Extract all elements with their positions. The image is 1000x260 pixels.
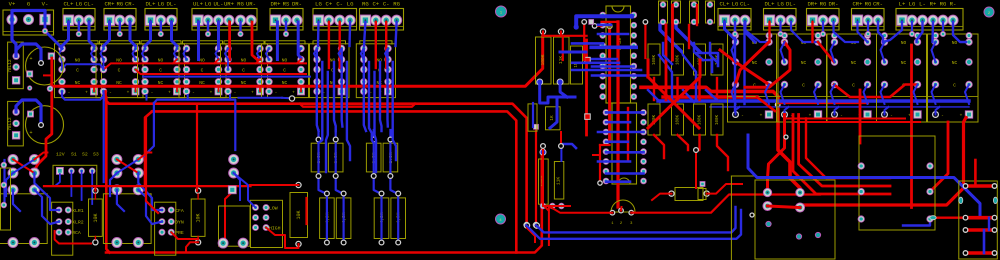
svg-text:RG: RG — [865, 0, 872, 7]
blue vert 103 — [103, 95, 105, 182]
wire K3 coil hooks — [142, 49, 145, 60]
transistor Q1 — [611, 200, 635, 212]
relay K9 — [728, 34, 779, 122]
svg-text:-: - — [275, 90, 278, 95]
regulator IC3 78L — [8, 101, 24, 145]
svg-text:L-: L- — [919, 0, 926, 7]
svg-text:C: C — [159, 68, 162, 74]
blue bus 232 — [536, 207, 736, 232]
red bus 111 — [145, 111, 152, 186]
relay K11 — [827, 34, 877, 122]
svg-text:-: - — [68, 90, 71, 95]
wire V+ top loop — [12, 11, 45, 20]
svg-text:PRE: PRE — [175, 230, 184, 236]
marker small a — [766, 221, 771, 226]
wire K7 coil hooks — [314, 49, 317, 60]
svg-text:100K: 100K — [653, 54, 657, 65]
resistor R7 11K — [554, 37, 570, 84]
wire ch2 blues — [110, 173, 117, 196]
wire red vert 609 — [608, 26, 611, 140]
resistor R8 1K — [546, 107, 561, 130]
wire red vert 618 main — [616, 22, 619, 207]
pad hook1 — [39, 61, 44, 66]
marker 1 — [496, 6, 507, 17]
svg-text:C: C — [118, 68, 121, 74]
svg-text:DR+: DR+ — [807, 0, 818, 7]
terminal block J4 DL — [145, 9, 177, 31]
svg-text:C+: C+ — [326, 0, 333, 7]
svg-text:+: + — [251, 90, 254, 95]
blue bus below C — [143, 76, 310, 78]
svg-text:NC: NC — [952, 60, 958, 66]
module box B — [859, 136, 935, 230]
wire red vert 628 — [627, 108, 629, 160]
svg-text:CFA: CFA — [175, 208, 184, 214]
marker 2 — [984, 7, 994, 17]
svg-text:RG: RG — [940, 0, 947, 7]
svg-text:V+: V+ — [9, 0, 16, 7]
svg-text:LG: LG — [205, 0, 212, 7]
svg-text:C+: C+ — [372, 0, 379, 7]
wire cn3 — [234, 173, 240, 200]
svg-text:UL+: UL+ — [193, 0, 204, 7]
wire V- feed — [45, 22, 62, 49]
terminal block J10 DL out — [764, 9, 797, 31]
svg-text:LG: LG — [315, 0, 322, 7]
wire reg2 hook — [16, 100, 41, 124]
svg-text:R+: R+ — [930, 0, 937, 7]
svg-text:LG: LG — [347, 0, 354, 7]
resistor R1 10K — [89, 199, 103, 236]
wire red band 97 — [663, 95, 757, 98]
terminal block J13 L/R out — [896, 9, 963, 31]
component left small — [528, 104, 537, 131]
resistor R6 100K — [536, 37, 552, 84]
op-amp U1 LM339 — [606, 6, 631, 103]
svg-text:+: + — [29, 130, 32, 136]
wire blue boxB L — [903, 219, 930, 226]
red sq stubs — [93, 86, 95, 91]
svg-text:RCA: RCA — [72, 230, 81, 236]
resistor R5 10K — [290, 193, 308, 238]
wire Q1 feeds — [620, 207, 623, 211]
svg-text:LG: LG — [157, 0, 164, 7]
svg-text:-: - — [192, 90, 195, 95]
svg-text:S3: S3 — [93, 152, 99, 158]
wire box C blues — [974, 160, 977, 186]
svg-text:LG: LG — [909, 0, 916, 7]
svg-text:C: C — [852, 83, 855, 89]
wire J4 feeds — [145, 22, 151, 46]
svg-text:C: C — [953, 83, 956, 89]
svg-text:C: C — [201, 68, 204, 74]
relay K10 — [777, 34, 828, 122]
wire blue rungs U1 — [592, 58, 617, 61]
wire bank red verts — [665, 25, 668, 100]
svg-text:100K: 100K — [540, 54, 546, 65]
op-amp U2 — [612, 103, 637, 184]
wire ch2 reds — [146, 118, 158, 214]
wire red left IC2 — [599, 145, 601, 182]
wire bank blues2 — [663, 43, 672, 64]
svg-text:12V: 12V — [56, 152, 65, 158]
blue vert 154 — [141, 103, 154, 159]
pad tiny red — [784, 135, 788, 139]
terminal block J12 CR out — [852, 9, 885, 31]
terminal block J1 V+/G/V- — [3, 10, 54, 35]
wire big blue top U1 — [576, 16, 631, 27]
regulator IC2 78L — [8, 42, 24, 89]
wire red mesh top — [543, 35, 587, 37]
wire ch1 rca red — [55, 231, 91, 244]
capacitor C1 — [26, 47, 64, 85]
red vert 536 — [535, 128, 537, 224]
svg-text:CL-: CL- — [84, 0, 94, 7]
resistors R 1.0K x4 — [311, 143, 326, 172]
wire J2 feeds — [62, 22, 69, 46]
channel 2 pads — [103, 194, 151, 244]
connector CN1 — [52, 202, 73, 255]
svg-text:C: C — [76, 68, 79, 74]
svg-text:RG: RG — [116, 0, 123, 7]
marker 4 — [496, 214, 506, 224]
svg-text:DR-: DR- — [292, 0, 302, 7]
resistor bank row1 — [648, 44, 660, 75]
wire blue U1 — [540, 82, 575, 103]
wire D1 red — [652, 194, 672, 200]
wire blue band 104 — [658, 99, 969, 102]
svg-text:RG: RG — [820, 0, 827, 7]
svg-text:100K: 100K — [677, 114, 681, 125]
connector CN2 — [155, 202, 176, 255]
svg-text:1K: 1K — [550, 115, 555, 121]
connector CN3 LOW/HIGH — [251, 200, 283, 247]
terminal block J6 DR — [270, 9, 303, 31]
svg-text:LOW: LOW — [269, 206, 278, 212]
svg-text:+: + — [29, 56, 32, 62]
blue bus 239 — [526, 210, 741, 239]
red bottom bus — [106, 150, 542, 253]
svg-text:C: C — [802, 83, 805, 89]
relay K8 — [360, 41, 392, 44]
wire box A reds — [768, 206, 801, 208]
svg-text:+: + — [85, 90, 88, 95]
ring pad bus — [289, 96, 294, 101]
blue bridge R1-R2 — [62, 64, 104, 69]
svg-text:DL-: DL- — [786, 0, 796, 7]
svg-text:C-: C- — [336, 0, 343, 7]
svg-text:NC: NC — [851, 60, 857, 66]
wire K8 coil hooks — [361, 49, 364, 60]
wire mid reds left — [543, 145, 548, 210]
wire J10 feeds — [768, 22, 770, 42]
svg-text:11K: 11K — [556, 177, 562, 186]
svg-text:DL-: DL- — [166, 0, 176, 7]
jumper block red bars — [967, 184, 994, 188]
red bus NO-C weave — [104, 63, 307, 69]
wire ch1 blues — [3, 160, 5, 203]
wire red diag boxB — [930, 122, 948, 192]
wire K4 coil hooks — [184, 49, 187, 60]
pads under R9 — [540, 203, 546, 209]
wire big red X — [648, 60, 700, 128]
wire K5 coil hooks — [225, 49, 228, 60]
relay K7 — [313, 41, 346, 44]
svg-text:78L12: 78L12 — [8, 117, 13, 131]
wire red band 87 — [641, 87, 800, 192]
wire blue U2 — [560, 82, 567, 97]
terminal block J5 UL/UR — [192, 9, 257, 31]
wire blue thin 111 — [710, 106, 969, 108]
left edge connector — [1, 168, 11, 230]
resistor bank row0 — [659, 1, 668, 23]
resistor bank row2 — [648, 104, 660, 135]
wire ch3 sq red — [225, 192, 232, 238]
wire bank diagonals — [659, 55, 672, 100]
wire J11 feeds — [811, 22, 813, 42]
wire J8 feeds — [364, 22, 365, 46]
svg-text:UR-: UR- — [246, 0, 256, 7]
pad ring 526 — [524, 222, 529, 227]
terminal block J2 CL — [63, 9, 95, 31]
wire K12 hooks — [881, 42, 885, 62]
svg-text:V-: V- — [42, 0, 49, 7]
wire K11 hooks — [831, 42, 835, 62]
svg-text:100K: 100K — [699, 114, 703, 125]
svg-text:CR+: CR+ — [104, 0, 115, 7]
svg-text:RG: RG — [393, 0, 400, 7]
channel 3 block — [219, 206, 251, 246]
wire K1 coil hooks — [59, 49, 62, 60]
svg-text:-: - — [741, 114, 744, 119]
relay K3 — [141, 41, 181, 44]
relay K12 — [877, 34, 927, 122]
svg-text:RS: RS — [283, 0, 290, 7]
blue bus 99 — [154, 100, 235, 150]
svg-text:10K: 10K — [296, 210, 302, 219]
wire bank blue diagonals — [660, 24, 682, 52]
wire red horiz 205 — [800, 118, 966, 206]
svg-text:DL+: DL+ — [145, 0, 156, 7]
svg-text:+: + — [960, 114, 963, 119]
wire J5 feeds — [197, 22, 200, 60]
wire K2 coil hooks — [101, 49, 104, 60]
pad small1 — [47, 86, 53, 92]
wire right relay bottom hooks — [736, 107, 740, 115]
wire divider loops — [317, 130, 319, 176]
relay K13 — [928, 34, 979, 122]
wire relay-to-divider verticals — [317, 50, 319, 131]
relay K2 — [100, 41, 140, 44]
switch S1-S3 block — [53, 165, 97, 186]
svg-text:S2: S2 — [82, 152, 88, 158]
svg-text:10K: 10K — [196, 213, 202, 222]
relay K4 — [183, 41, 223, 44]
svg-text:CL+: CL+ — [63, 0, 74, 7]
module box C — [959, 181, 998, 259]
resistor R8b — [571, 46, 583, 84]
svg-text:NC: NC — [801, 60, 807, 66]
red bus 103 — [106, 91, 527, 224]
resistors R 4.2K x4 — [320, 198, 335, 239]
red bus 186 — [44, 185, 251, 187]
svg-text:NO: NO — [901, 40, 907, 46]
svg-text:100K: 100K — [677, 54, 681, 65]
channel 1 pads — [0, 194, 47, 244]
wire J6 feeds — [276, 22, 279, 60]
svg-text:CL-: CL- — [740, 0, 750, 7]
svg-text:XLR1: XLR1 — [72, 208, 84, 214]
svg-text:10K: 10K — [93, 213, 99, 222]
wire red V rail — [48, 53, 55, 60]
svg-text:-: - — [234, 90, 237, 95]
svg-text:+: + — [168, 90, 171, 95]
resistor R10 11K b — [554, 162, 563, 200]
wire J9 feeds — [725, 22, 736, 40]
blue NO-C stubs — [61, 59, 63, 69]
svg-text:NC: NC — [901, 60, 907, 66]
svg-text:100K: 100K — [716, 114, 720, 125]
wire blue rungs U2 — [606, 111, 644, 114]
wire switch feeds — [70, 171, 72, 196]
wire red bar2 link — [935, 216, 967, 218]
wire reg1 hook — [16, 44, 41, 62]
svg-text:+: + — [292, 90, 295, 95]
wire K9 hooks — [732, 42, 736, 62]
relay K6 — [265, 41, 305, 44]
svg-text:CR-: CR- — [873, 0, 883, 7]
svg-text:C: C — [242, 68, 245, 74]
wire red branch C — [44, 74, 52, 76]
terminal block J11 DR out — [807, 9, 840, 31]
svg-text:DYN: DYN — [175, 220, 184, 226]
svg-text:LG: LG — [75, 0, 82, 7]
wire J9 long blues — [734, 24, 736, 111]
wire right relay reds — [720, 50, 769, 85]
red bus NC thick — [52, 36, 543, 86]
red vert 106 — [106, 98, 109, 253]
teal ovals boxC — [959, 197, 963, 203]
red vert 197 — [196, 104, 198, 191]
svg-text:CR+: CR+ — [852, 0, 863, 7]
svg-text:DR-: DR- — [828, 0, 838, 7]
red bus 106 segment — [300, 104, 415, 107]
svg-text:CL+: CL+ — [719, 0, 730, 7]
capacitor C2 — [26, 106, 64, 144]
svg-text:DL+: DL+ — [764, 0, 775, 7]
svg-text:DR+: DR+ — [270, 0, 281, 7]
wire blue bottom right — [748, 135, 980, 218]
resistor R2 10K — [191, 199, 205, 236]
terminal block J9 CL out — [718, 9, 751, 31]
svg-text:+: + — [210, 90, 213, 95]
marker small b — [796, 234, 801, 239]
board outline right — [730, 176, 732, 260]
wire J3 feeds — [104, 22, 110, 46]
svg-text:L+: L+ — [899, 0, 906, 7]
wire ch1 reds — [94, 186, 96, 191]
wire relay bottom reds — [768, 115, 785, 193]
svg-text:78L12: 78L12 — [8, 59, 13, 73]
svg-text:RG: RG — [362, 0, 369, 7]
svg-text:UR+: UR+ — [224, 0, 235, 7]
svg-text:NO: NO — [75, 58, 81, 64]
marker small c — [815, 232, 820, 237]
module box A — [755, 180, 835, 259]
wire red vert 586 — [585, 40, 588, 135]
svg-text:NC: NC — [752, 60, 758, 66]
svg-text:UL-: UL- — [213, 0, 223, 7]
terminal block J3 CR — [104, 9, 136, 31]
wire J12 feeds — [858, 22, 868, 42]
svg-text:XLR2: XLR2 — [72, 220, 84, 226]
relay K1 — [58, 41, 98, 44]
svg-text:-: - — [151, 90, 154, 95]
svg-text:NO: NO — [952, 40, 958, 46]
terminal block J7 LG/C — [313, 9, 357, 31]
svg-text:LG: LG — [777, 0, 784, 7]
wire red seg 103 — [778, 102, 868, 104]
wire J13 feeds — [883, 22, 902, 42]
wire V+ down — [12, 20, 16, 57]
svg-text:-: - — [941, 114, 944, 119]
svg-text:R-: R- — [950, 0, 957, 7]
svg-text:+: + — [127, 90, 130, 95]
red NO stubs — [173, 59, 177, 63]
relay K5 — [224, 41, 264, 44]
svg-text:-: - — [109, 90, 112, 95]
terminal block J8 RG/C — [360, 9, 404, 31]
red bus C partial — [136, 70, 307, 75]
svg-text:CR-: CR- — [125, 0, 135, 7]
svg-text:RG: RG — [237, 0, 244, 7]
wire K6 coil hooks — [266, 49, 269, 60]
wire K10 hooks — [781, 42, 785, 62]
resistor R9 500K — [539, 159, 549, 204]
wire K13 hooks — [932, 42, 936, 62]
svg-text:+: + — [760, 114, 763, 119]
blue bridge K1K2 bottom — [62, 91, 104, 99]
svg-text:LG: LG — [732, 0, 739, 7]
svg-text:C: C — [283, 68, 286, 74]
svg-text:S1: S1 — [71, 152, 77, 158]
wire J7 feeds — [317, 22, 320, 46]
diode D1 — [675, 188, 703, 201]
svg-text:C-: C- — [383, 0, 390, 7]
